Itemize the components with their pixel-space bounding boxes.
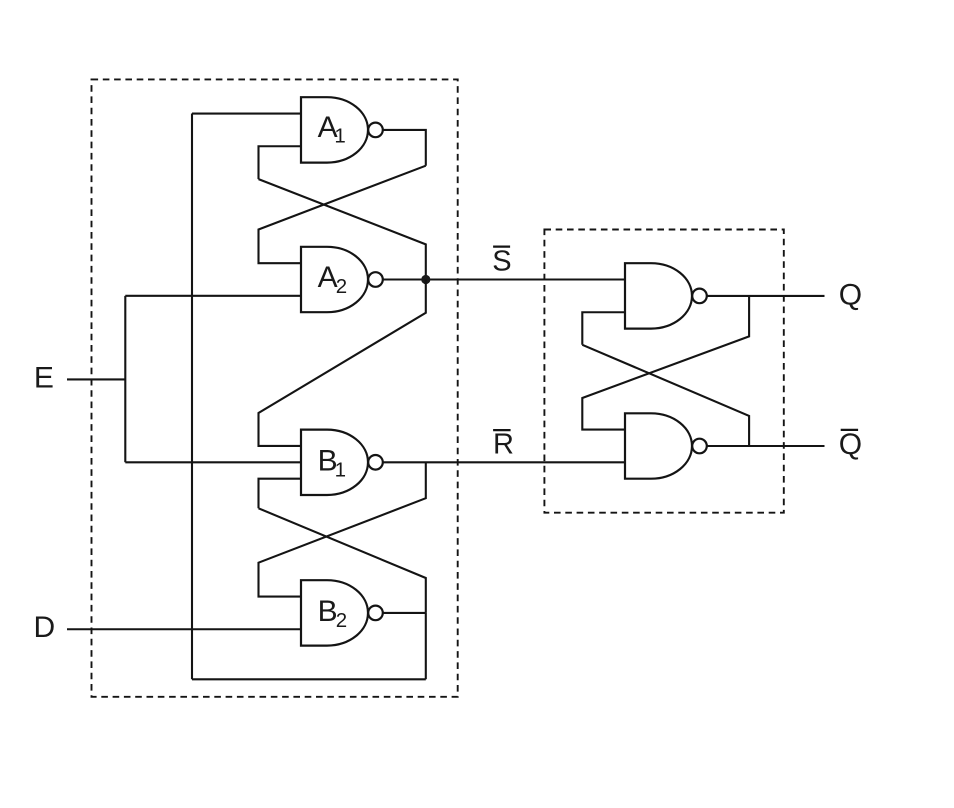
wire B2-out to B1-bottom-in diagonal xyxy=(259,508,426,613)
svg-text:S: S xyxy=(492,245,511,277)
svg-text:B: B xyxy=(318,595,338,628)
wire Q-bar output xyxy=(707,445,825,447)
wire A1-out to A2-top-in diagonal xyxy=(259,166,426,263)
output-latch dashed boundary box xyxy=(544,230,783,513)
wire U5 bottom input branch xyxy=(582,312,625,345)
wire D input lead to B2 bottom input xyxy=(67,628,301,630)
wire feedback bottom horizontal xyxy=(192,678,426,680)
bubble U6 xyxy=(692,439,707,454)
svg-text:R: R xyxy=(493,428,514,460)
wire S-bar net: A2 output to U5 top input xyxy=(426,278,625,280)
svg-text:Q: Q xyxy=(839,278,862,311)
wire B1 output lead / R-bar net to U6 bottom input xyxy=(383,461,625,463)
bubble B1 xyxy=(368,455,383,470)
wire S-bar branch down to B1 top input xyxy=(259,280,426,446)
wire A2 output lead xyxy=(383,278,426,280)
wire B2-output feedback vertical (left) xyxy=(191,114,193,680)
wire A1 bottom input branch xyxy=(259,146,302,179)
nand gate U5 (output latch top) xyxy=(625,263,692,328)
wire B2 output down to feedback bottom xyxy=(425,613,427,679)
svg-text:2: 2 xyxy=(336,609,347,632)
nand gate B1 (3-input) xyxy=(301,430,368,495)
svg-text:D: D xyxy=(34,611,56,644)
input-stage dashed boundary box xyxy=(92,79,458,696)
wire B2 output lead xyxy=(383,612,426,614)
overline of R-bar label xyxy=(493,429,511,431)
nand gate B2 xyxy=(301,580,368,645)
junction dot S-bar node xyxy=(421,275,430,284)
overline of S-bar label xyxy=(493,245,510,247)
nand gate U6 (output latch bottom) xyxy=(625,413,692,478)
bubble U5 xyxy=(692,289,707,304)
wire E input lead xyxy=(67,378,125,380)
svg-text:2: 2 xyxy=(336,275,347,298)
bubble A2 xyxy=(368,272,383,287)
svg-text:1: 1 xyxy=(335,459,346,482)
wire E distribution vertical xyxy=(124,296,126,462)
svg-text:1: 1 xyxy=(334,125,345,148)
wire B1 bottom input branch xyxy=(259,479,302,509)
wire Q output xyxy=(707,295,825,297)
wire R-bar branch down xyxy=(259,462,426,596)
bubble B2 xyxy=(368,606,383,621)
wire E to A2 bottom input xyxy=(125,295,301,297)
nand gate A1 xyxy=(301,97,368,162)
wire U6-out cross to U5-bottom-in xyxy=(582,345,749,446)
wire A1 output lead xyxy=(383,130,426,166)
wire U5-out cross to U6-top-in xyxy=(582,296,749,430)
svg-text:A: A xyxy=(318,261,338,294)
wire A2-out to A1-bottom-in diagonal xyxy=(259,179,426,279)
nand gate A2 xyxy=(301,247,368,312)
bubble A1 xyxy=(368,123,383,138)
svg-text:E: E xyxy=(34,361,54,394)
svg-text:Q: Q xyxy=(839,428,862,461)
wire feedback to A1 top input xyxy=(192,113,301,115)
wire E to B1 middle input xyxy=(125,461,301,463)
overline of Q-bar label xyxy=(841,429,858,431)
